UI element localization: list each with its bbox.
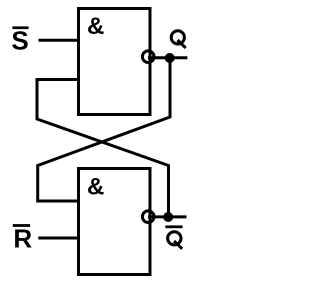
- svg-text:&: &: [87, 173, 104, 200]
- svg-text:S: S: [11, 25, 28, 55]
- svg-text:R: R: [13, 223, 32, 253]
- svg-text:&: &: [87, 13, 104, 40]
